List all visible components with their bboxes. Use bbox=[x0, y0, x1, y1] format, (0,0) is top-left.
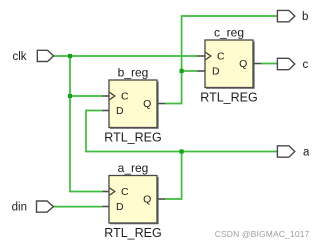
flip-flop b_reg bbox=[103, 65, 166, 144]
svg-text:D: D bbox=[116, 105, 124, 117]
wire net b branch to c_reg D bbox=[182, 70, 198, 72]
wire net a: a_reg Q up to junction bbox=[165, 152, 182, 200]
a_reg pin Q bbox=[143, 194, 165, 206]
wire din (din port to a_reg D) bbox=[53, 206, 103, 208]
wire net a to output port a bbox=[182, 151, 278, 153]
wire clk vertical branch bbox=[70, 56, 103, 192]
svg-text:Q: Q bbox=[239, 58, 247, 70]
input port clk bbox=[12, 50, 53, 63]
wire net a feedback to b_reg D bbox=[86, 111, 182, 152]
svg-text:c_reg: c_reg bbox=[214, 25, 244, 39]
svg-text:RTL_REG: RTL_REG bbox=[104, 131, 161, 145]
svg-text:C: C bbox=[217, 51, 225, 63]
a_reg pin D bbox=[103, 201, 125, 213]
a_reg pin C bbox=[103, 186, 130, 198]
b_reg pin Q bbox=[143, 98, 165, 110]
svg-text:C: C bbox=[121, 186, 129, 198]
input port din bbox=[12, 201, 54, 214]
output port b bbox=[277, 10, 308, 23]
junction clk net at (70,96) bbox=[68, 94, 72, 98]
wire net c: c_reg Q to port c bbox=[261, 63, 277, 65]
b_reg pin C bbox=[103, 91, 130, 103]
svg-text:Q: Q bbox=[143, 98, 151, 110]
junction clk net at (70,56) bbox=[68, 54, 72, 58]
svg-text:Q: Q bbox=[143, 194, 151, 206]
a_reg body bbox=[109, 176, 157, 224]
output port c bbox=[277, 58, 308, 71]
svg-text:c: c bbox=[303, 59, 309, 71]
flip-flop c_reg bbox=[197, 25, 261, 104]
junction net a at (181.6,151.5) bbox=[180, 149, 184, 153]
wire clk horizontal (clk port to c_reg C) bbox=[54, 55, 198, 57]
b_reg body bbox=[109, 80, 157, 128]
svg-text:D: D bbox=[212, 66, 220, 78]
svg-text:C: C bbox=[121, 91, 129, 103]
svg-text:RTL_REG: RTL_REG bbox=[200, 91, 257, 105]
c_reg pin Q bbox=[239, 58, 261, 70]
svg-text:D: D bbox=[116, 201, 124, 213]
c_reg pin C bbox=[197, 51, 225, 63]
svg-text:RTL_REG: RTL_REG bbox=[104, 226, 161, 240]
c_reg pin D bbox=[197, 66, 220, 78]
svg-text:b: b bbox=[302, 11, 308, 23]
b_reg pin D bbox=[103, 105, 125, 117]
output port a bbox=[277, 146, 310, 159]
svg-text:a_reg: a_reg bbox=[118, 161, 149, 175]
svg-text:clk: clk bbox=[12, 51, 26, 63]
svg-text:b_reg: b_reg bbox=[118, 65, 149, 79]
wire net b: b_reg Q up to port b bbox=[165, 16, 277, 104]
svg-text:a: a bbox=[303, 147, 310, 159]
flip-flop a_reg bbox=[103, 161, 166, 240]
svg-text:din: din bbox=[12, 202, 27, 214]
junction net b at (181.6,71) bbox=[180, 69, 184, 73]
svg-text:CSDN @BIGMAC_1017: CSDN @BIGMAC_1017 bbox=[215, 229, 310, 239]
wire clk to b_reg C bbox=[70, 95, 103, 97]
c_reg body bbox=[205, 40, 253, 88]
